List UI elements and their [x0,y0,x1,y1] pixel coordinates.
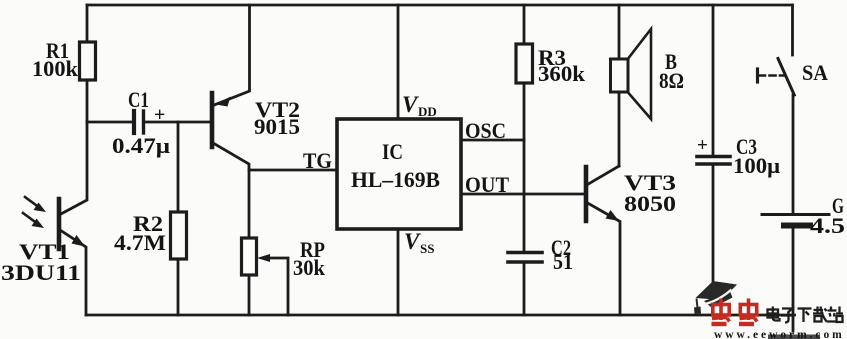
watermark text dianzixiazaizhan (chinese) [768,307,844,323]
battery G [762,95,829,331]
svg-text:V: V [404,229,421,254]
svg-text:51: 51 [553,249,573,274]
capacitor C3 [697,5,730,315]
svg-text:SS: SS [420,241,434,256]
resistor R1 [80,5,96,122]
node A wire (R1/C1/VT1 junction) [87,121,131,124]
resistor R2 [171,122,187,315]
capacitor C1 [134,111,212,133]
svg-text:0.47μ: 0.47μ [112,133,171,158]
svg-text:SA: SA [802,60,828,85]
transistor VT2 (PNP 9015) [212,5,250,170]
svg-text:4.5: 4.5 [810,213,845,238]
wire TG net [249,169,337,172]
svg-text:30k: 30k [293,255,326,280]
svg-text:3DU11: 3DU11 [1,260,81,285]
svg-text:360k: 360k [538,61,586,86]
svg-text:TG: TG [303,148,332,173]
svg-text:8Ω: 8Ω [659,68,684,93]
watermark graduation cap [694,281,737,314]
switch SA [758,5,795,95]
potentiometer RP [242,170,289,315]
speaker B [611,5,652,166]
wire OSC pin [461,139,524,142]
light arrows into VT1 [23,197,46,228]
watermark text chongchong (red bugs) [712,299,758,325]
svg-text:100k: 100k [32,56,79,81]
svg-text:www.eeworm.com: www.eeworm.com [714,329,845,339]
svg-text:C1: C1 [128,87,149,112]
phototransistor VT1 [59,122,87,315]
svg-text:100μ: 100μ [733,153,781,178]
wire bottom ground rail [86,314,795,317]
svg-text:V: V [402,92,419,117]
wire VDD pin [397,5,400,119]
svg-text:8050: 8050 [624,191,676,216]
svg-text:+: + [697,135,708,156]
svg-text:9015: 9015 [254,114,300,139]
svg-text:OUT: OUT [465,172,509,197]
transistor VT3 (NPN 8050) [586,166,620,315]
wire OUT pin [461,193,586,196]
capacitor C2 [508,140,542,315]
wire VSS pin [397,229,400,315]
watermark url www.eeworm.com [714,329,845,339]
op IC U1 HL-169B box [337,119,461,229]
resistor R3 [516,5,533,140]
svg-text:OSC: OSC [465,118,506,143]
svg-text:+: + [154,104,165,126]
svg-text:4.7M: 4.7M [114,230,166,255]
wire top supply rail [87,4,793,7]
svg-text:DD: DD [418,104,437,119]
svg-text:IC: IC [382,139,403,164]
svg-text:HL–169B: HL–169B [351,167,440,192]
